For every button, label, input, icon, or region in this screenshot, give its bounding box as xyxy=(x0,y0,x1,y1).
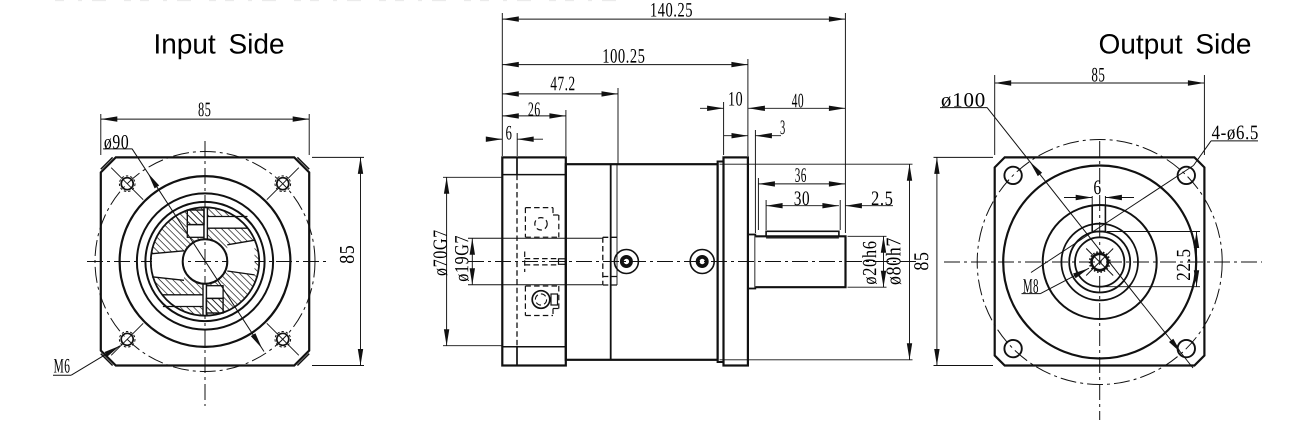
dim 6 xyxy=(516,133,518,156)
left view: input bore dia 19 xyxy=(183,239,228,284)
dim 3 xyxy=(754,130,756,233)
left view: clamp slit top xyxy=(204,207,207,239)
left view: horizontal centerline xyxy=(87,261,328,263)
right view: label 4-dia6.5 xyxy=(1212,126,1258,140)
middle view: side screw 2 xyxy=(690,250,714,274)
right view: bolt circle dia 100 dash-dot xyxy=(977,140,1222,385)
middle view: input bore lines dia 19 xyxy=(468,237,602,239)
left view: clamp slit bottom xyxy=(203,284,206,316)
dim dia19G7 xyxy=(471,238,473,285)
right view: M8 tapped hole xyxy=(1092,254,1108,270)
middle view: spacer ring xyxy=(718,162,724,363)
middle view: side screw 1 xyxy=(614,250,638,274)
middle view: shaft key xyxy=(766,231,839,236)
right view: horizontal centerline xyxy=(944,261,1262,263)
right view: body circle xyxy=(1003,166,1196,359)
middle view: gearbox body xyxy=(566,164,718,360)
middle view: horizontal centerline xyxy=(468,261,916,263)
left view: clamp hub outer circle xyxy=(151,207,259,315)
middle view: body stage joint xyxy=(610,164,612,360)
left view: vertical centerline xyxy=(204,141,206,406)
left view: clamp slot right wedge xyxy=(227,240,254,275)
middle view: hidden center hole xyxy=(525,258,557,260)
middle view: output flange plate xyxy=(724,157,748,365)
left view: bolt circle dia 90 dash-dot xyxy=(95,152,315,372)
middle view: hidden screw pocket top xyxy=(525,207,553,209)
left view: screw shank rect bottom-right xyxy=(206,286,223,299)
title: Input Side xyxy=(156,33,283,59)
middle view: hidden screw circle top xyxy=(535,218,547,230)
left view: inner ring circle 2 xyxy=(145,202,264,321)
dim 40 xyxy=(748,107,845,109)
right view: shaft circle dia 20 xyxy=(1075,237,1124,286)
left view: screw shank rect top-left xyxy=(187,225,204,238)
right view: dim 85 top xyxy=(994,75,996,155)
middle view: hidden screw pocket bottom xyxy=(525,285,558,287)
dim 100.25 xyxy=(747,59,749,156)
left view: clamp screw block bottom-right xyxy=(206,298,223,313)
right view: dim 6 keyway xyxy=(1091,196,1093,206)
right view: collar circle xyxy=(1069,232,1130,293)
right view: bearing circle xyxy=(1043,205,1157,319)
left view: pilot boss circle dia 70 xyxy=(120,176,291,347)
right view: four dia 6.5 holes xyxy=(1004,167,1021,184)
right view: vertical centerline xyxy=(1099,141,1101,420)
dim 47.2 xyxy=(617,88,619,164)
middle view: input flange block xyxy=(502,157,566,365)
left view: white band right of top slit xyxy=(207,217,247,229)
left view: clamp screw block top-left xyxy=(187,210,204,225)
dim 140.25 xyxy=(501,13,503,156)
right view: M8 label and leader xyxy=(1023,279,1038,293)
right view: dim 22.5 xyxy=(1107,231,1200,233)
middle view: shaft collar xyxy=(748,235,755,289)
left view: clamp slot left wedge xyxy=(152,251,184,280)
left view: dimension 85 right xyxy=(312,156,364,158)
dim dia80h7 xyxy=(720,163,913,165)
left view: M6 leader and label xyxy=(54,359,70,373)
left view: label dia 90 xyxy=(104,135,128,149)
dim 36 xyxy=(757,178,759,230)
middle view: output shaft xyxy=(755,236,845,287)
dim 2.5 xyxy=(845,205,893,207)
middle view: flange chamfer lines xyxy=(502,174,566,176)
left view: white band left of bottom slit xyxy=(163,295,203,307)
dim 30 xyxy=(765,200,767,230)
right view: hub circle xyxy=(1061,224,1138,301)
right view: label dia 100 xyxy=(942,93,985,107)
left view: inner ring circle 1 xyxy=(137,193,273,329)
dim 10 xyxy=(723,102,725,155)
left view: clamp hub hatched section xyxy=(151,207,259,315)
left view: dimension 85 top xyxy=(100,114,102,155)
dim dia20h6 xyxy=(848,235,887,237)
left view: square flange outline xyxy=(101,157,309,365)
right view: keyway slot xyxy=(1091,206,1093,232)
middle view: input plate joint 6mm xyxy=(516,157,518,174)
right view: square flange outline xyxy=(995,157,1205,365)
middle view: sun shaft end block xyxy=(559,259,566,265)
dim 26 xyxy=(565,110,567,156)
top edge cropped text remnants xyxy=(55,0,620,2)
left view: dia 90 diameter line xyxy=(132,149,264,352)
left view: corner chamfer inner lines xyxy=(101,157,113,169)
left view: four M6 tapped holes xyxy=(121,178,133,190)
right view: dia100 diameter line xyxy=(987,107,1193,368)
right view: dim 85 left xyxy=(934,156,994,158)
dim dia70G7 xyxy=(443,176,502,178)
middle view: hidden sun gear outline xyxy=(602,237,604,285)
middle view: screw head bottom visible xyxy=(532,291,550,309)
title: Output Side xyxy=(1100,33,1250,59)
